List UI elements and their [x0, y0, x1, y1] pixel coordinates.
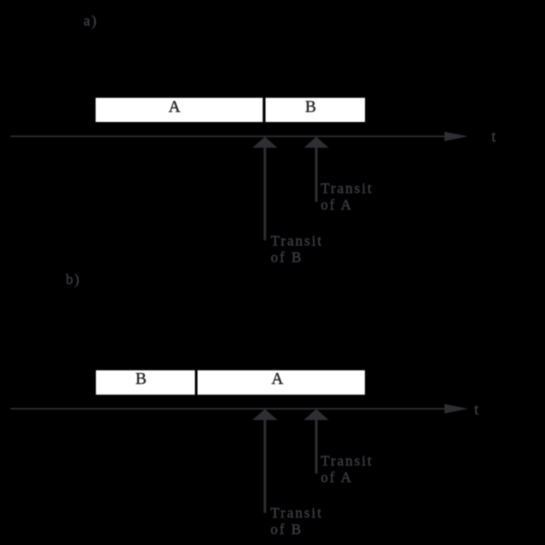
svg-text:a): a)	[84, 13, 98, 29]
transit of B arrow (diagram a)	[252, 137, 277, 241]
text "Transit of A" (diagram b)	[321, 454, 373, 487]
text "Transit of A" (diagram a)	[321, 181, 373, 214]
svg-text:of B: of B	[271, 522, 303, 538]
text "Transit of B" (diagram b)	[271, 506, 323, 539]
svg-text:Transit: Transit	[321, 181, 373, 197]
svg-text:Transit: Transit	[271, 233, 323, 249]
transit of B arrow (diagram b)	[252, 409, 277, 513]
transit of A arrow (diagram a)	[304, 137, 329, 202]
timeline arrowhead (diagram a)	[445, 132, 468, 141]
box B (diagram b)	[96, 370, 195, 394]
svg-text:A: A	[168, 97, 180, 116]
svg-text:Transit: Transit	[271, 506, 323, 522]
svg-text:B: B	[135, 369, 146, 388]
svg-text:B: B	[305, 97, 316, 116]
box A (diagram a)	[96, 98, 263, 122]
svg-text:Transit: Transit	[321, 454, 373, 470]
box A (diagram b)	[198, 370, 365, 394]
svg-text:t: t	[492, 128, 497, 145]
timeline axis (diagram a)	[10, 135, 446, 137]
svg-text:of B: of B	[271, 250, 303, 266]
text "Transit of B" (diagram a)	[271, 233, 323, 266]
svg-text:of A: of A	[321, 470, 353, 486]
svg-text:t: t	[474, 401, 479, 418]
svg-text:b): b)	[66, 272, 81, 288]
svg-text:A: A	[271, 369, 283, 388]
transit of A arrow (diagram b)	[304, 409, 329, 473]
timeline axis (diagram b)	[10, 408, 446, 410]
timeline arrowhead (diagram b)	[445, 404, 468, 413]
svg-text:of A: of A	[321, 198, 353, 214]
box B (diagram a)	[266, 98, 366, 122]
